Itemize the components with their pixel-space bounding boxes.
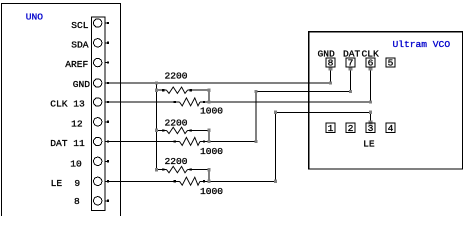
svg-text:3: 3 bbox=[368, 123, 374, 134]
svg-text:LE: LE bbox=[363, 139, 375, 150]
svg-text:1000: 1000 bbox=[200, 186, 223, 197]
svg-text:UNO: UNO bbox=[26, 12, 44, 23]
svg-text:AREF: AREF bbox=[65, 59, 88, 70]
svg-text:CLK 13: CLK 13 bbox=[50, 98, 85, 109]
svg-text:DAT 11: DAT 11 bbox=[50, 138, 85, 149]
svg-text:8: 8 bbox=[328, 58, 334, 69]
svg-text:GND: GND bbox=[73, 79, 91, 90]
svg-text:SCL: SCL bbox=[71, 20, 89, 31]
svg-text:8: 8 bbox=[74, 196, 80, 207]
svg-text:6: 6 bbox=[368, 58, 374, 69]
svg-text:SDA: SDA bbox=[71, 40, 89, 51]
svg-text:2200: 2200 bbox=[165, 156, 188, 167]
svg-text:5: 5 bbox=[388, 58, 394, 69]
svg-text:2: 2 bbox=[348, 123, 354, 134]
svg-text:Ultram VCO: Ultram VCO bbox=[393, 39, 451, 50]
svg-text:1: 1 bbox=[328, 123, 334, 134]
svg-text:7: 7 bbox=[348, 58, 354, 69]
svg-text:2200: 2200 bbox=[165, 117, 188, 128]
svg-text:9: 9 bbox=[74, 178, 80, 189]
svg-text:LE: LE bbox=[51, 178, 63, 189]
svg-text:2200: 2200 bbox=[165, 71, 188, 82]
svg-text:12: 12 bbox=[71, 119, 83, 130]
svg-text:10: 10 bbox=[70, 158, 82, 169]
svg-text:4: 4 bbox=[388, 123, 394, 134]
svg-text:1000: 1000 bbox=[200, 146, 223, 157]
svg-text:1000: 1000 bbox=[200, 105, 223, 116]
